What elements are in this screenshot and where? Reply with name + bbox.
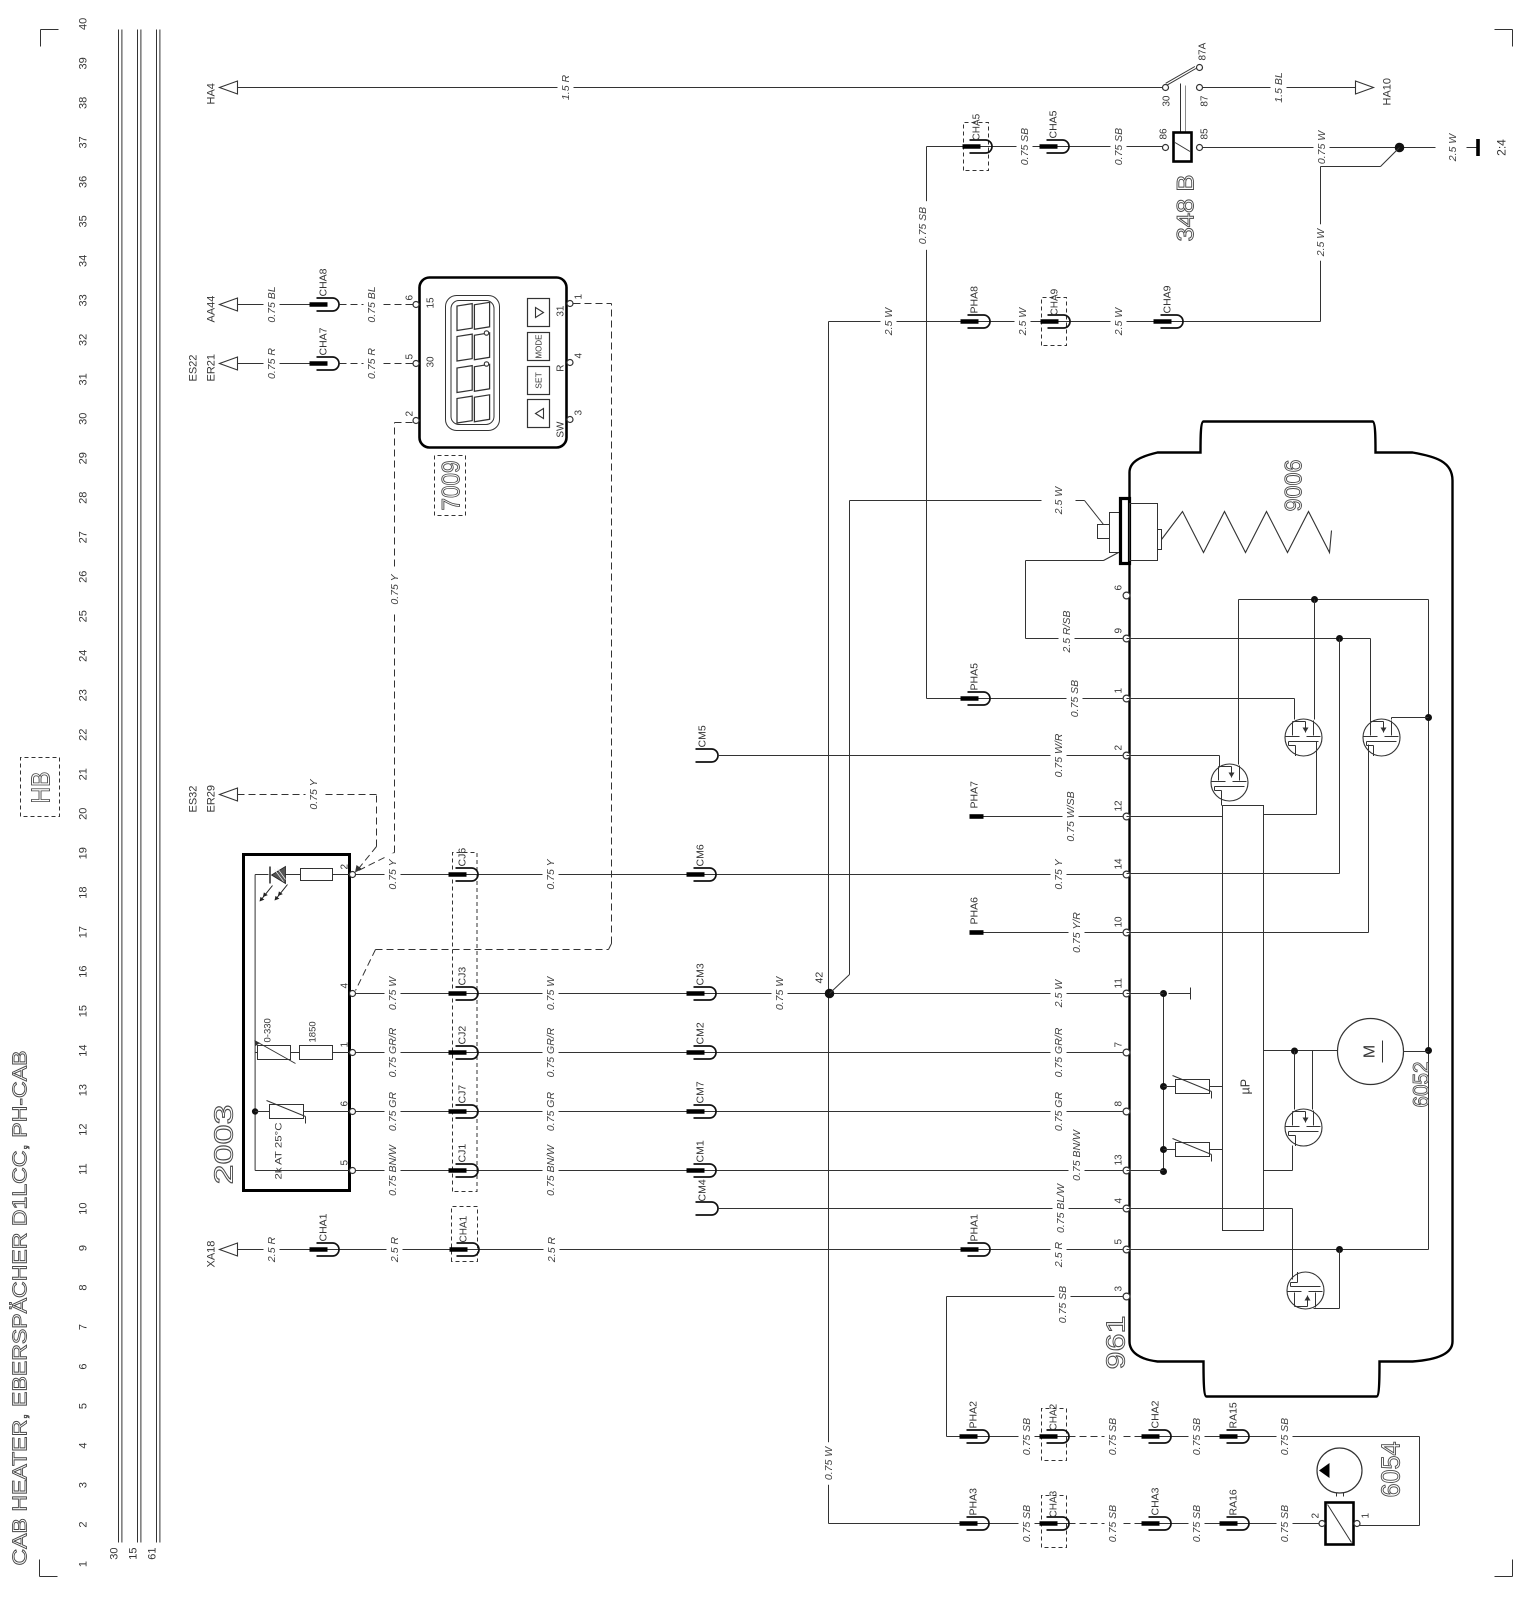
transistor M4 [1285, 1109, 1322, 1146]
svg-text:2.5 W: 2.5 W [1447, 133, 1459, 163]
wire M1 source to uP [1221, 792, 1223, 806]
svg-text:PHA1: PHA1 [969, 1214, 981, 1242]
svg-text:9: 9 [78, 1245, 90, 1251]
svg-text:15: 15 [426, 297, 437, 309]
wire 0.75 GR 2003:6 to ECU:8 [356, 1111, 1123, 1113]
svg-text:61: 61 [147, 1548, 159, 1560]
svg-text:6: 6 [340, 1101, 351, 1107]
LED light arrows [261, 886, 273, 901]
svg-text:18: 18 [78, 887, 90, 899]
off-page arrow ER21 [220, 357, 238, 370]
power rail 15 [137, 30, 139, 1543]
wire label 2.5 R [387, 1231, 403, 1267]
connector CJ1 [456, 1164, 479, 1177]
svg-text:2: 2 [1114, 745, 1125, 751]
svg-text:30: 30 [1162, 95, 1173, 107]
dashed wire 0.75 Y 7009 pin2 to 2003 pin2 [395, 422, 413, 424]
svg-text:3: 3 [1114, 1286, 1125, 1292]
connector CHA8 [317, 298, 340, 311]
connector RA16 [1227, 1517, 1250, 1530]
glow plug step [1158, 530, 1162, 550]
wire 2.5 W distribution (line A) [828, 322, 830, 1524]
svg-text:10: 10 [78, 1202, 90, 1214]
wire 0.75 SB link corner to CHA5 [927, 146, 1163, 148]
heater unit ECU 961 outline [1130, 422, 1453, 1397]
svg-text:0.75 SB: 0.75 SB [1069, 680, 1081, 717]
dashed box around CHA1 [452, 1207, 478, 1262]
svg-text:HA10: HA10 [1382, 78, 1394, 106]
svg-text:5: 5 [78, 1403, 90, 1409]
wire label 2.5 R [264, 1231, 280, 1267]
dashed label box 7009 [435, 456, 466, 516]
wire 0.75 Y/R PHA6 to ECU:10 [984, 932, 1123, 934]
svg-text:ES32: ES32 [188, 786, 200, 813]
svg-text:13: 13 [1114, 1154, 1125, 1166]
relay 348B coil diagonal [1175, 143, 1190, 152]
dashed wire 0.75 BL CHA8 to 7009 [340, 304, 413, 306]
svg-text:30: 30 [78, 413, 90, 425]
svg-text:0.75 W/SB: 0.75 W/SB [1065, 791, 1077, 841]
svg-text:0.75 SB: 0.75 SB [1107, 1505, 1119, 1542]
svg-text:6052: 6052 [1409, 1062, 1434, 1108]
svg-text:CHA5: CHA5 [972, 113, 983, 140]
svg-text:1.5 R: 1.5 R [560, 75, 572, 101]
svg-text:4: 4 [78, 1442, 90, 1448]
dashed box around CHA5 [964, 123, 989, 171]
svg-text:24: 24 [78, 650, 90, 662]
wire ECU pin9 to M3 gate [1127, 638, 1371, 640]
off-page arrow ES32/ER29 [220, 788, 238, 801]
junction dot on bus [252, 1108, 258, 1114]
svg-text:CHA1: CHA1 [459, 1215, 470, 1242]
wire label 2.5 W [1445, 129, 1461, 165]
dashed box around CHA9 [1042, 298, 1067, 346]
wire resistor to pin 2 [333, 874, 350, 876]
off-page arrow HA10 [1356, 81, 1374, 94]
svg-text:CM5: CM5 [697, 725, 709, 747]
svg-text:RA15: RA15 [1228, 1402, 1240, 1428]
power rail 30 [118, 30, 120, 1543]
wire label 1.5 R [558, 69, 574, 105]
junction dot [1160, 1083, 1167, 1090]
wire pin9-branch to ECU pin14 [1339, 639, 1341, 874]
wire ECU pin4 to M5 [1127, 1208, 1293, 1210]
wire 1.5 R HA4 to relay 30 [238, 87, 1163, 89]
dashed wire 0.75 Y ES32 arrow to 2003 pin2 [238, 794, 377, 796]
svg-text:0.75 SB: 0.75 SB [1279, 1418, 1291, 1455]
svg-text:µP: µP [1239, 1079, 1253, 1095]
2003 pin 6 [350, 1109, 356, 1115]
frame corner mark bottom-left [1512, 1560, 1514, 1577]
svg-text:CJ2: CJ2 [457, 1026, 469, 1045]
fuel pump pin 2 [1319, 1521, 1325, 1527]
dashed box CJ connector group [453, 853, 478, 1192]
potentiometer arrow [255, 1041, 296, 1064]
wire label 0.75 BL/W [1053, 1178, 1069, 1239]
svg-text:CM4: CM4 [697, 1179, 709, 1201]
wire label 0.75 GR [543, 1087, 559, 1136]
wire label 0.75 GR [385, 1087, 401, 1136]
svg-text:0.75 SB: 0.75 SB [1113, 128, 1125, 165]
wire label 2.5 W [1051, 975, 1067, 1011]
fuel pump 6054 motor circle [1317, 1448, 1362, 1493]
svg-text:40: 40 [78, 18, 90, 30]
svg-text:0.75 SB: 0.75 SB [1279, 1505, 1291, 1542]
wire 0.75 Y 2003:2 to ECU:14 [356, 874, 1123, 876]
svg-text:6: 6 [1114, 585, 1125, 591]
connector CJ2 [456, 1046, 479, 1059]
svg-text:12: 12 [78, 1123, 90, 1135]
wire M4 gate branch [1294, 1051, 1296, 1110]
7009 seven-segment digits [457, 393, 490, 424]
svg-text:11: 11 [1114, 978, 1125, 989]
wire 1850 to pin 1 [333, 1052, 350, 1054]
svg-text:17: 17 [78, 926, 90, 938]
svg-text:CHA2: CHA2 [1049, 1403, 1060, 1430]
svg-text:0.75 W/R: 0.75 W/R [1053, 733, 1065, 777]
svg-text:2.5 W: 2.5 W [883, 307, 895, 337]
svg-text:2.5 W: 2.5 W [1017, 307, 1029, 337]
ECU pin 5 [1123, 1246, 1130, 1253]
glow plug terminal [1098, 525, 1110, 539]
relay 348B contact 85 [1197, 145, 1203, 151]
svg-text:15: 15 [128, 1548, 140, 1560]
svg-text:29: 29 [78, 452, 90, 464]
svg-text:35: 35 [78, 215, 90, 227]
wire LED to resistor [286, 874, 301, 876]
svg-text:10: 10 [1114, 916, 1125, 928]
svg-text:21: 21 [78, 768, 90, 780]
wire label 0.75 BL [364, 280, 380, 329]
off-page arrow XA18 [220, 1243, 238, 1256]
svg-text:2.5 W: 2.5 W [1315, 228, 1327, 258]
svg-text:87: 87 [1200, 95, 1211, 107]
connector PHA3 [967, 1517, 990, 1530]
svg-text:14: 14 [1114, 858, 1125, 870]
svg-text:23: 23 [78, 689, 90, 701]
svg-text:2.5 R: 2.5 R [389, 1237, 401, 1264]
wire label 0.75 W [772, 972, 788, 1015]
dashed box HB [21, 758, 60, 817]
wire bus to thermistor [255, 1111, 269, 1113]
wire ECU pin5 supply rail [1127, 1249, 1429, 1251]
svg-text:MODE: MODE [535, 335, 544, 359]
wire motor to supply [1404, 1051, 1429, 1053]
wire label 1.5 BL [1271, 66, 1287, 109]
ECU internal ground stub (pin 11) [1169, 993, 1191, 995]
wire potentiometer to 1850 [291, 1052, 300, 1054]
fuel pump valve diagonal [1328, 1505, 1352, 1543]
svg-text:0.75 Y: 0.75 Y [387, 858, 399, 889]
junction dot [1336, 1246, 1343, 1253]
ECU pin 4 [1123, 1205, 1130, 1212]
svg-text:PHA5: PHA5 [969, 663, 981, 691]
7009 pin 2 (top) [413, 418, 419, 424]
svg-text:2: 2 [340, 864, 351, 870]
fuel pump neck [1336, 1493, 1338, 1497]
wire label 2.5 W [1111, 303, 1127, 339]
wire supply to M2 drain [1314, 600, 1316, 720]
wire 0.75 BN/W 2003:5 to ECU:13 [356, 1170, 1123, 1172]
wire 0.75 SB line A down to pump (PHA3 row) [829, 1523, 1069, 1525]
svg-text:CHA7: CHA7 [318, 327, 330, 355]
junction 42 dot [825, 989, 835, 999]
wire label 2.5 R [1051, 1236, 1067, 1272]
transistor M2 [1285, 719, 1322, 756]
svg-text:0.75 R: 0.75 R [366, 348, 378, 379]
7009 pin 3 (bottom) [567, 417, 573, 423]
svg-text:CHA3: CHA3 [1049, 1490, 1060, 1517]
svg-text:CM2: CM2 [695, 1022, 707, 1044]
svg-text:6: 6 [78, 1363, 90, 1369]
connector CHA3 [1149, 1517, 1172, 1530]
wire M4 source to uP [1292, 1146, 1294, 1171]
connector CHA1 (dashed pair) [457, 1243, 480, 1256]
svg-text:36: 36 [78, 176, 90, 188]
fuel pump pin 1 [1354, 1521, 1360, 1527]
wire label 0.75 GR [1051, 1087, 1067, 1136]
svg-text:6054: 6054 [1376, 1442, 1406, 1498]
svg-text:0.75 GR/R: 0.75 GR/R [1053, 1027, 1065, 1077]
motor 6052 circle [1338, 1019, 1404, 1085]
connector PHA1 [968, 1243, 991, 1256]
connector CM3 [694, 987, 717, 1000]
7009 decimal points [484, 362, 488, 366]
svg-text:2.5 W: 2.5 W [1053, 486, 1065, 516]
glow plug inner body [1130, 504, 1158, 561]
wire 2.5 W glow tail [1076, 500, 1085, 502]
wire M4 drain to motor line [1312, 1051, 1314, 1110]
connector CJ6 [456, 868, 479, 881]
svg-text:0.75 BN/W: 0.75 BN/W [545, 1144, 557, 1196]
svg-text:25: 25 [78, 610, 90, 622]
junction dot [1395, 143, 1405, 153]
wire label 0.75 SB [1105, 1499, 1121, 1548]
svg-text:CHA5: CHA5 [1048, 110, 1060, 138]
connector CM2 [694, 1046, 717, 1059]
svg-text:5: 5 [405, 354, 416, 360]
wire label 0.75 Y [385, 853, 401, 896]
svg-text:0.75 BL: 0.75 BL [366, 286, 378, 322]
internal thermistor 2 [1164, 1149, 1176, 1151]
7009 display window [446, 296, 500, 431]
glow plug body block [1110, 513, 1120, 553]
svg-text:0.75 SB: 0.75 SB [1057, 1286, 1069, 1323]
svg-text:3: 3 [78, 1482, 90, 1488]
wire 0.75 W/R CM5 to ECU:2 [718, 755, 1123, 757]
ECU pin 3 [1123, 1293, 1130, 1300]
svg-text:7: 7 [78, 1324, 90, 1330]
connector CHA1 [317, 1243, 340, 1256]
svg-text:34: 34 [78, 255, 90, 267]
svg-text:CHA2: CHA2 [1150, 1400, 1162, 1428]
svg-text:M: M [1362, 1045, 1379, 1058]
wire label 0.75 GR/R [543, 1022, 559, 1083]
wire ECU pin1 to M2 gate [1127, 698, 1295, 700]
svg-text:CM7: CM7 [695, 1081, 707, 1103]
relay 348B actuator link [1180, 84, 1182, 134]
svg-text:5: 5 [340, 1160, 351, 1166]
svg-text:2:4: 2:4 [1495, 139, 1509, 156]
relay 348B contact 30 [1163, 85, 1169, 91]
svg-text:31: 31 [78, 373, 90, 385]
connector PHA2 [967, 1430, 990, 1443]
wire label 0.75 SB [1067, 674, 1083, 723]
wire stub to ground [1467, 147, 1478, 149]
wire label 2.5 W [1015, 303, 1031, 339]
ECU pin 10 [1123, 929, 1130, 936]
7009 pin 5 (top) [413, 361, 419, 367]
power rail 61 [156, 30, 158, 1543]
wire 0.75 W relay 85 to ground [1203, 147, 1436, 149]
svg-text:961: 961 [1101, 1316, 1131, 1370]
svg-text:2.5 W: 2.5 W [1053, 979, 1065, 1009]
svg-text:4: 4 [1114, 1198, 1125, 1204]
connector CHA2 [1149, 1430, 1172, 1443]
svg-text:0.75 SB: 0.75 SB [1191, 1505, 1203, 1542]
frame corner mark top-left [39, 1560, 41, 1577]
display unit 7009 body [420, 278, 567, 448]
svg-text:4: 4 [574, 353, 585, 359]
svg-text:7: 7 [1114, 1042, 1125, 1048]
7009 button SET [528, 367, 550, 395]
fuel pump valve box [1326, 1503, 1354, 1545]
ECU pin 9 [1123, 635, 1130, 642]
svg-text:2: 2 [1311, 1513, 1322, 1519]
svg-text:0-330: 0-330 [263, 1018, 274, 1042]
ECU pin 6 [1123, 592, 1130, 599]
svg-text:22: 22 [78, 729, 90, 741]
svg-text:2.5 W: 2.5 W [1113, 307, 1125, 337]
wire uP to motor [1264, 1050, 1338, 1052]
junction dot [1311, 596, 1318, 603]
svg-text:CM3: CM3 [695, 963, 707, 985]
svg-text:30: 30 [426, 356, 437, 368]
fuel pump triangle [1319, 1463, 1330, 1478]
ECU pin 11 [1123, 990, 1130, 997]
wire M5 branch [1339, 1250, 1341, 1309]
svg-text:2003: 2003 [209, 1105, 239, 1185]
svg-text:87A: 87A [1198, 42, 1209, 60]
wire label 0.75 SB [1055, 1280, 1071, 1329]
svg-text:0.75 Y: 0.75 Y [308, 778, 320, 809]
wire 0.75 SB horizontal link [926, 147, 928, 699]
svg-text:11: 11 [78, 1163, 90, 1174]
wire label 0.75 BN/W [1069, 1125, 1085, 1186]
ECU pin 2 [1123, 752, 1130, 759]
wire label 0.75 W [543, 972, 559, 1015]
svg-text:9006: 9006 [1281, 460, 1308, 512]
connector CM4 (unmated) [696, 1202, 719, 1215]
svg-text:86: 86 [1159, 128, 1170, 140]
LED triangle [272, 867, 286, 884]
svg-text:CJ1: CJ1 [457, 1144, 469, 1163]
wire label 0.75 SB [1277, 1499, 1293, 1548]
svg-text:0.75 R: 0.75 R [266, 348, 278, 379]
svg-text:1: 1 [1361, 1513, 1372, 1519]
wire bus to potentiometer [255, 1052, 257, 1054]
connector CHA5 (dashed pair) [970, 140, 993, 153]
glow element coil 9006 [1162, 512, 1332, 553]
svg-text:PHA3: PHA3 [968, 1488, 980, 1516]
wire label 0.75 GR/R [1051, 1022, 1067, 1083]
wire 0.75 BL arrow to CHA8 [238, 304, 317, 306]
svg-text:2.5 R: 2.5 R [546, 1237, 558, 1264]
wire label 0.75 SB [1111, 122, 1127, 171]
svg-text:31: 31 [556, 305, 567, 317]
wire M2 source to uP [1316, 742, 1318, 815]
resistor 1850 [300, 1046, 333, 1060]
wire 0.75 R arrow to CHA7 [238, 363, 317, 365]
svg-text:0.75 W: 0.75 W [387, 976, 399, 1010]
svg-text:33: 33 [78, 294, 90, 306]
ECU pin 1 [1123, 695, 1130, 702]
svg-text:12: 12 [1114, 800, 1125, 812]
wire ECU pin2 to M1 gate [1127, 755, 1220, 757]
transistor M1 [1211, 764, 1248, 801]
wire label 0.75 Y/R [1069, 905, 1085, 960]
wire 0.75 SB pin3-link down to pump (PHA2 row) [947, 1436, 1069, 1438]
wire label 0.75 Y [1051, 853, 1067, 896]
svg-text:8: 8 [1114, 1101, 1125, 1107]
wire 0.75 W/SB PHA7 to ECU:12 [984, 816, 1123, 818]
ECU pin 12 [1123, 813, 1130, 820]
2003 pin 4 [350, 991, 356, 997]
svg-text:32: 32 [78, 334, 90, 346]
wire label 0.75 R [364, 342, 380, 385]
svg-text:0.75 SB: 0.75 SB [1191, 1418, 1203, 1455]
svg-text:CHA1: CHA1 [318, 1213, 330, 1241]
thermistor 2k [270, 1105, 304, 1119]
wire label 0.75 SB [1189, 1412, 1205, 1461]
2003 internal bus [254, 875, 256, 1171]
svg-text:ER21: ER21 [206, 354, 218, 382]
svg-text:CJ3: CJ3 [457, 967, 469, 986]
wire 2.5 W corner to CHA9 column [1320, 167, 1322, 322]
connector CHA3 (dashed pair) [1047, 1517, 1070, 1530]
wire 2003:4 to ECU:11 [356, 993, 1123, 995]
svg-text:0.75 Y: 0.75 Y [389, 573, 401, 604]
connector PHA8 [968, 315, 991, 328]
resistor (LED series) [301, 869, 333, 881]
svg-text:PHA8: PHA8 [969, 286, 981, 314]
svg-text:1: 1 [340, 1042, 351, 1048]
svg-text:348 B: 348 B [1173, 175, 1200, 242]
svg-text:0.75 GR/R: 0.75 GR/R [545, 1027, 557, 1077]
svg-text:SW: SW [556, 421, 567, 438]
connector PHA5 [968, 692, 991, 705]
frame corner mark top-right [40, 30, 42, 47]
svg-text:CM6: CM6 [695, 844, 707, 866]
svg-text:0.75 BN/W: 0.75 BN/W [387, 1144, 399, 1196]
connector CHA9 (dashed pair) [1048, 315, 1071, 328]
svg-text:14: 14 [78, 1045, 90, 1057]
svg-text:0.75 SB: 0.75 SB [1107, 1418, 1119, 1455]
svg-text:PHA7: PHA7 [969, 781, 981, 809]
relay 348B contact 87A [1197, 65, 1203, 71]
wire label 0.75 SB [1017, 122, 1033, 171]
wire M3 drain to supply [1391, 718, 1393, 720]
relay 348B contact 86 [1163, 145, 1169, 151]
svg-text:2.5 R/SB: 2.5 R/SB [1061, 610, 1073, 653]
svg-text:26: 26 [78, 571, 90, 583]
dashed box around CHA3 [1042, 1496, 1067, 1548]
ground symbol 2:4 [1476, 139, 1480, 156]
svg-text:0.75 Y/R: 0.75 Y/R [1071, 912, 1083, 953]
junction dot [1160, 1168, 1167, 1175]
wire label 0.75 W [1314, 126, 1330, 169]
junction dot [1160, 1146, 1167, 1153]
